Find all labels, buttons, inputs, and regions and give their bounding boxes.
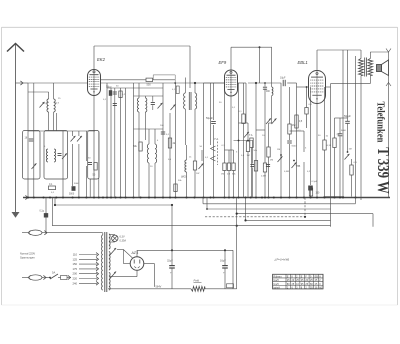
wire rail5 dot: [236, 225, 238, 227]
svg-text:2M: 2M: [270, 160, 273, 162]
svg-text:T.A: T.A: [249, 134, 253, 137]
switch: [32, 163, 37, 169]
capacitor: [250, 164, 254, 166]
wire: [194, 109, 196, 145]
svg-text:(MO): (MO): [181, 176, 187, 179]
bus junction dots: [27, 196, 29, 198]
svg-text:175: 175: [73, 267, 78, 271]
resistor: [242, 114, 245, 124]
wire mains 1: [48, 232, 103, 234]
power transformer core: [104, 232, 106, 292]
fuse box: [61, 276, 68, 280]
svg-text:EK2: EK2: [97, 57, 106, 62]
wire: [154, 163, 156, 198]
switch: [171, 104, 176, 110]
antenna: [7, 44, 24, 52]
wire: [148, 163, 150, 198]
svg-text:50µµF: 50µµF: [344, 115, 351, 118]
resistor: [350, 165, 353, 175]
resistor: [168, 138, 171, 148]
fuse mains 1: [22, 232, 28, 234]
switch wave band 1: [71, 136, 76, 142]
capacitor: [151, 102, 155, 104]
wire EBL1 pin left: [297, 86, 309, 88]
svg-text:T.A.: T.A.: [214, 137, 219, 141]
speaker connector: [386, 83, 391, 87]
wire EK2 anode top: [94, 45, 190, 47]
svg-text:5000: 5000: [74, 183, 80, 185]
wire: [169, 113, 171, 198]
capacitor: [266, 164, 270, 166]
coil: [145, 98, 147, 112]
wire: [72, 144, 74, 186]
wire: [27, 83, 29, 198]
resistor block: [109, 90, 112, 96]
wire: [369, 52, 371, 59]
wire B+ main: [355, 56, 357, 204]
wire drop: [236, 214, 238, 289]
wire: [248, 82, 281, 84]
svg-text:1M: 1M: [349, 149, 352, 151]
resistor: [295, 115, 298, 128]
svg-text:EF9: EF9: [219, 60, 227, 65]
tuning box 2: [44, 131, 68, 180]
tuning box 1: [23, 131, 41, 180]
resistor: [193, 161, 196, 170]
resistor: [250, 138, 253, 148]
tone pot: [345, 154, 350, 160]
resistor: [139, 142, 142, 151]
resistor: [223, 163, 226, 171]
resistor: [232, 163, 235, 171]
capacitor 10000: [282, 80, 284, 86]
wire cathode: [136, 250, 138, 256]
capacitor 32uF: [169, 265, 175, 267]
capacitor: [113, 103, 117, 105]
wire: [144, 112, 146, 140]
svg-text:∠P≈U•I•(W): ∠P≈U•I•(W): [274, 258, 289, 262]
svg-text:500: 500: [147, 83, 152, 86]
switch: [62, 153, 67, 159]
connector arrow: [211, 146, 216, 151]
capacitor 0,1uF line filter: [45, 198, 47, 233]
wire EF9 pin left: [204, 82, 225, 84]
resistor cathode EBL1: [309, 188, 312, 196]
terminal box: [227, 284, 234, 288]
resistor: [333, 138, 336, 148]
resistor: [263, 163, 266, 172]
capacitor osc grid: [263, 86, 267, 88]
svg-text:1M: 1M: [247, 155, 250, 157]
svg-text:Ug/V: Ug/V: [273, 283, 279, 286]
svg-text:125: 125: [73, 257, 78, 261]
wire horizontal: [269, 122, 272, 124]
svg-text:Normal 220V: Normal 220V: [20, 252, 35, 256]
power transformer primary: [102, 235, 103, 290]
tube data table: [273, 274, 323, 289]
wire: [125, 88, 127, 198]
svg-text:5000: 5000: [69, 194, 75, 196]
coil L1a: [47, 99, 49, 112]
svg-text:Telefunken: Telefunken: [375, 102, 387, 143]
ground: [15, 198, 17, 213]
power transformer secondary 3: [109, 273, 110, 291]
wire rail2: [207, 208, 331, 210]
svg-text:10µF: 10µF: [280, 77, 286, 80]
wire: [78, 144, 80, 198]
svg-text:THB: THB: [296, 165, 301, 168]
rail dots: [236, 213, 238, 215]
wire: [330, 84, 332, 227]
svg-text:5A: 5A: [52, 271, 55, 275]
IF coil b: [195, 93, 197, 109]
svg-text:Ia/mA: Ia/mA: [273, 286, 280, 289]
wire EK2 cathode: [93, 96, 95, 198]
switch: [199, 163, 204, 169]
wire anode1: [123, 250, 132, 259]
svg-text:2M: 2M: [337, 134, 340, 136]
wire heater bottom: [136, 270, 138, 276]
wire: [175, 83, 177, 198]
wire: [388, 76, 390, 198]
resistor: [323, 140, 326, 150]
svg-text:564V: 564V: [156, 286, 162, 289]
switch: [158, 103, 163, 109]
resistor: [246, 141, 249, 152]
svg-text:1M: 1M: [221, 174, 224, 176]
coil L2b: [54, 149, 56, 162]
volume pot: [280, 83, 282, 198]
capacitor block: [72, 186, 76, 191]
wire AVC jog: [153, 75, 175, 80]
wire B+ psu: [137, 249, 233, 251]
wire: [372, 214, 374, 227]
resistor: [288, 124, 291, 134]
wire EF9 grid top: [231, 46, 272, 48]
wire: [53, 112, 55, 131]
capacitor: [161, 131, 165, 133]
resistor: [267, 147, 270, 157]
wire EBL1 cathode: [316, 104, 318, 198]
svg-text:AZ 1: AZ 1: [131, 251, 139, 255]
wire dashed: [217, 142, 219, 166]
svg-text:T 339 W: T 339 W: [374, 147, 393, 194]
wire rail1a: [55, 204, 172, 206]
wire: [109, 234, 115, 236]
svg-text:50µµF: 50µµF: [206, 117, 213, 120]
wire horizontal: [239, 122, 249, 124]
svg-text:Röhren: Röhren: [273, 276, 282, 279]
wire: [85, 131, 87, 161]
wire: [117, 249, 124, 251]
switch antenna: [40, 102, 45, 108]
mains switch: [50, 274, 58, 279]
dial lamp: [112, 235, 118, 241]
svg-text:1M: 1M: [277, 149, 280, 151]
wire: [133, 83, 135, 198]
wire: [89, 179, 91, 198]
wire: [107, 87, 163, 89]
wire signal line g1: [28, 82, 88, 84]
wire: [369, 76, 371, 84]
rectifier AZ1: [130, 257, 144, 271]
wire: [48, 92, 50, 99]
wire EBL1 pin right: [326, 86, 331, 88]
svg-text:50µµ: 50µµ: [106, 85, 112, 88]
capacitor padding: [58, 153, 62, 155]
tuning box 3: [88, 131, 99, 180]
wire horizontal: [134, 95, 164, 97]
wire: [62, 131, 64, 198]
coil L2a: [46, 149, 48, 162]
IF coil a: [184, 93, 186, 109]
wire horizontal: [335, 117, 348, 119]
fuse mains 2: [22, 277, 28, 279]
wire EF9 pin right: [238, 82, 247, 84]
resistor: [174, 184, 177, 192]
wire: [28, 91, 49, 93]
wire: [351, 181, 353, 197]
svg-text:220: 220: [73, 277, 78, 281]
speaker: [377, 65, 382, 72]
selector switch: [110, 248, 117, 256]
wire EF9 cathode: [230, 96, 232, 163]
wire osc coil top: [271, 47, 273, 87]
wire psu bottom: [108, 288, 191, 290]
wire heater right: [144, 263, 155, 265]
svg-text:0,1µ: 0,1µ: [40, 211, 45, 213]
wire: [238, 83, 240, 198]
resistor: [94, 163, 97, 171]
wire: [138, 112, 140, 198]
wire: [388, 52, 390, 60]
wire rail long: [52, 225, 330, 227]
wire: [234, 140, 254, 142]
wire: [184, 78, 186, 94]
svg-text:0,1µF: 0,1µF: [312, 181, 318, 183]
power transformer secondary 1: [109, 234, 110, 249]
power transformer secondary 2: [109, 252, 110, 271]
speaker connector: [386, 49, 391, 53]
wire EBL1 anode top: [317, 49, 361, 51]
tube EBL1: [309, 71, 326, 104]
wire: [110, 88, 112, 198]
output transformer core: [364, 58, 366, 77]
wire: [194, 83, 196, 93]
wire antenna feed arrow: [16, 82, 29, 84]
svg-text:EBL1: EBL1: [298, 60, 308, 65]
capacitor: [88, 162, 92, 164]
wire: [210, 83, 212, 145]
wire B+ screen: [342, 50, 344, 198]
switch: [244, 132, 249, 138]
svg-text:0,3M: 0,3M: [261, 176, 266, 178]
coil osc2: [272, 87, 273, 96]
THB pot: [292, 162, 297, 168]
wire EK2 out line: [101, 82, 226, 84]
wire: [162, 83, 164, 198]
switch: [272, 118, 277, 124]
coil L1b: [54, 99, 56, 112]
resistor 500: [146, 78, 153, 81]
wire horizontal: [134, 128, 164, 130]
wire anode line A: [101, 79, 146, 81]
svg-text:0,5M: 0,5M: [284, 171, 289, 173]
tube EK2: [88, 70, 101, 96]
coil osc a: [147, 144, 149, 163]
wire: [232, 250, 234, 288]
capacitor: [338, 133, 343, 135]
svg-text:5000: 5000: [341, 130, 347, 132]
coil: [137, 98, 139, 112]
coil MO: [185, 160, 187, 172]
wire: [296, 83, 298, 198]
svg-text:200: 200: [73, 272, 78, 276]
svg-text:16µF: 16µF: [220, 260, 226, 263]
IF transformer core: [188, 92, 190, 110]
capacitor: [287, 140, 292, 142]
coil osc b: [155, 144, 157, 163]
resistor: [176, 86, 179, 94]
wire: [303, 131, 305, 152]
wire rail1b: [203, 203, 356, 205]
output transformer primary: [359, 59, 364, 76]
wire: [98, 131, 100, 198]
wire rail4: [246, 219, 331, 221]
capacitor trim: [29, 138, 33, 140]
field coil: [191, 286, 205, 291]
svg-text:0,35A: 0,35A: [120, 240, 127, 243]
svg-text:Ua/V: Ua/V: [273, 279, 279, 282]
capacitor block: [308, 186, 313, 191]
output transformer secondary: [368, 59, 373, 76]
wire: [255, 83, 257, 198]
capacitor 16uF: [222, 265, 228, 267]
wire: [55, 113, 57, 131]
svg-text:5000: 5000: [292, 146, 298, 148]
svg-text:240: 240: [73, 281, 78, 285]
wire horizontal: [290, 130, 305, 132]
wire horizontal fb: [331, 83, 362, 85]
svg-text:150: 150: [73, 262, 78, 266]
wire: [33, 83, 35, 198]
svg-text:110: 110: [73, 253, 78, 257]
svg-text:6,3V: 6,3V: [120, 236, 125, 239]
svg-text:Feld: Feld: [194, 279, 200, 283]
capacitor 50pF: [345, 120, 350, 122]
svg-text:EB: EB: [315, 276, 319, 279]
resistor: [119, 91, 122, 98]
tube EF9: [225, 70, 238, 96]
resistor: [254, 161, 257, 172]
wire horizontal: [324, 196, 345, 198]
wire horizontal: [28, 130, 95, 132]
resistor: [49, 186, 56, 190]
wire rail3: [237, 213, 373, 215]
wire: [203, 83, 205, 198]
switch wave band 2: [77, 136, 82, 142]
resistor grid EBL1: [305, 108, 308, 115]
resistor: [227, 163, 230, 171]
svg-text:Spannungen: Spannungen: [20, 256, 35, 260]
wire: [120, 88, 122, 198]
chassis ground bus: [23, 197, 390, 199]
capacitor 50pF: [211, 121, 216, 123]
wire: [106, 83, 108, 198]
svg-text:32µF: 32µF: [167, 260, 173, 263]
wire: [123, 263, 130, 265]
wire horizontal: [225, 149, 234, 151]
wire top link: [259, 47, 261, 83]
connector arrow: [211, 156, 216, 161]
wire: [360, 76, 362, 84]
wire: [189, 46, 191, 88]
wire horizontal: [256, 129, 265, 131]
wire: [184, 109, 186, 145]
selector switch: [110, 272, 117, 280]
wire rail dashed: [205, 216, 305, 218]
